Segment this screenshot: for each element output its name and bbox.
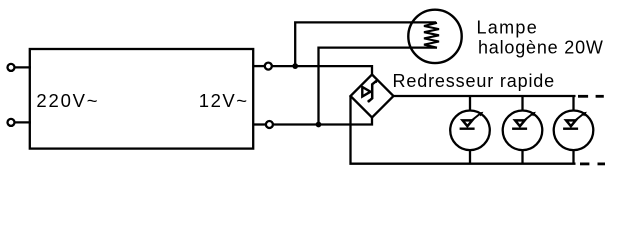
svg-text:Lampe: Lampe — [477, 17, 539, 37]
terminal secondary top — [265, 63, 272, 70]
wire secondary bottom box to terminal — [253, 123, 266, 125]
LED D1 stub bottom — [469, 150, 471, 164]
lamp L1 halogen bulb — [408, 10, 461, 63]
svg-text:Redresseur rapide: Redresseur rapide — [393, 71, 556, 91]
LED D3 circle — [554, 111, 594, 151]
wire lamp bottom branch — [319, 48, 438, 125]
wire dashed continuation top rail — [578, 95, 588, 98]
wire secondary bottom to bridge bottom corner — [273, 118, 372, 125]
node junction bottom — [316, 122, 322, 128]
wire primary top — [14, 66, 31, 68]
LED D3 triangle — [566, 120, 576, 126]
wire primary bottom — [14, 121, 31, 123]
LED D3 stub bottom — [572, 150, 574, 164]
wire bridge DC plus rail — [394, 95, 576, 97]
wire dashed continuation bottom rail — [580, 162, 589, 165]
LED D2 triangle — [515, 120, 525, 126]
LED D1 cathode bar — [460, 127, 475, 129]
LED D2 stub top — [521, 96, 523, 111]
bridge diode triangle — [362, 87, 370, 97]
wire lamp top branch — [295, 22, 436, 66]
LED D3 cathode bar — [563, 127, 578, 129]
LED D2 circle — [503, 111, 543, 151]
LED D3 arrow — [576, 114, 583, 120]
lamp filament coil — [424, 23, 439, 48]
terminal primary top — [8, 64, 15, 71]
bridge rectifier U1 diamond — [351, 75, 394, 118]
terminal secondary bottom — [266, 121, 273, 128]
wire secondary top box to terminal — [253, 65, 265, 67]
node junction top — [292, 63, 298, 69]
terminal primary bottom — [8, 119, 15, 126]
svg-text:12V~: 12V~ — [199, 90, 249, 111]
LED D2 stub bottom — [521, 150, 523, 164]
wire bridge DC minus rail — [351, 96, 576, 164]
LED D1 triangle — [463, 120, 473, 126]
LED D1 arrow — [472, 114, 479, 120]
LED D3 stub top — [572, 96, 574, 111]
transformer T1 box — [30, 49, 253, 149]
bridge diode cathode bar — [369, 81, 376, 101]
LED D1 stub top — [469, 96, 471, 111]
LED D2 cathode bar — [512, 127, 527, 129]
svg-text:halogène 20W: halogène 20W — [478, 37, 604, 57]
wire secondary top to bridge top corner — [272, 66, 372, 75]
LED D2 arrow — [525, 114, 532, 120]
LED D1 circle — [450, 111, 490, 151]
svg-text:220V~: 220V~ — [36, 90, 99, 111]
